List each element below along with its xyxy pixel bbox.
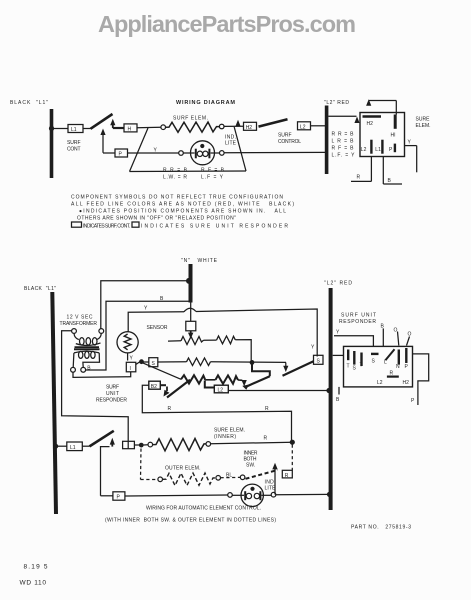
svg-text:SW.: SW. bbox=[246, 463, 255, 469]
svg-text:WD 110: WD 110 bbox=[20, 580, 47, 587]
terminal bbox=[206, 442, 211, 447]
svg-text:"N" WHITE: "N" WHITE bbox=[181, 258, 218, 264]
svg-text:R F = B: R F = B bbox=[332, 146, 355, 152]
svg-text:RESPONDER: RESPONDER bbox=[339, 319, 376, 325]
svg-text:●INDICATES POSITION COMPONENTS: ●INDICATES POSITION COMPONENTS ARE SHOWN… bbox=[79, 209, 286, 215]
svg-text:B: B bbox=[388, 178, 392, 184]
arrow actuator ind lite stem bbox=[274, 469, 276, 495]
svg-text:H2: H2 bbox=[403, 380, 410, 386]
switch blade main bottom bbox=[90, 431, 114, 447]
sensor bbox=[117, 332, 138, 353]
wire resistor to junction bbox=[211, 361, 287, 364]
svg-text:H: H bbox=[128, 127, 132, 133]
wire lamp to L2 bus bbox=[276, 493, 329, 495]
node N junction bbox=[186, 278, 192, 284]
wire R stub below responder bbox=[370, 157, 372, 182]
wire bus to responder H2 with arrow bbox=[328, 115, 356, 117]
dashed drop junction to R box bbox=[291, 445, 293, 471]
trapezoid left diagonal bbox=[130, 128, 149, 172]
switch blade surf control bbox=[259, 119, 288, 126]
svg-text:T: T bbox=[347, 364, 350, 370]
terminal bbox=[271, 492, 276, 497]
svg-text:SURF UNIT: SURF UNIT bbox=[341, 313, 376, 319]
wire row2.5 to zigzag2 bbox=[205, 379, 215, 381]
svg-text:O: O bbox=[408, 332, 412, 338]
svg-text:N: N bbox=[396, 364, 400, 370]
svg-text:Y: Y bbox=[336, 330, 340, 336]
dashed drop to outer row bbox=[140, 449, 143, 480]
svg-text:R: R bbox=[285, 473, 289, 479]
svg-text:R: R bbox=[357, 175, 361, 181]
node row3 bus junction bbox=[326, 388, 331, 393]
svg-text:CONTROL: CONTROL bbox=[278, 139, 301, 145]
terminal P bar bbox=[394, 144, 396, 153]
svg-text:L2: L2 bbox=[361, 147, 367, 153]
wire bus to responder T bbox=[333, 354, 344, 356]
wire bus to L1 box bbox=[52, 128, 69, 130]
svg-text:P: P bbox=[389, 147, 393, 153]
bus L2 bottom bbox=[329, 288, 333, 510]
node inner elem junction bbox=[139, 443, 144, 448]
arrow actuator from P wire bbox=[102, 134, 104, 153]
svg-text:L.F. = Y: L.F. = Y bbox=[332, 153, 356, 159]
terminal bbox=[148, 442, 153, 447]
box L1 bottom bbox=[67, 442, 83, 451]
wire Y into responder top bbox=[334, 336, 373, 346]
resistor surf elem top bbox=[166, 122, 220, 132]
svg-text:Y: Y bbox=[408, 140, 412, 146]
terminal L1 bar bbox=[381, 140, 383, 154]
svg-text:TRANSFORMER: TRANSFORMER bbox=[60, 321, 98, 327]
svg-text:LITE: LITE bbox=[265, 486, 277, 492]
dashed outer row lead bbox=[141, 479, 158, 481]
box B2 bbox=[149, 381, 161, 389]
terminal L2 bar bbox=[370, 140, 372, 154]
wire P box to lamp bbox=[128, 152, 179, 154]
arrow B2 bbox=[160, 384, 166, 386]
branch to L2 box bbox=[205, 381, 215, 388]
svg-text:L1: L1 bbox=[375, 147, 381, 153]
svg-text:SENSOR: SENSOR bbox=[147, 325, 168, 331]
box S left bbox=[149, 358, 158, 367]
node lamp bus junction bbox=[327, 492, 332, 497]
resistor row1 b bbox=[217, 336, 236, 344]
svg-text:H2: H2 bbox=[246, 125, 253, 131]
svg-text:Y: Y bbox=[144, 306, 148, 312]
svg-text:8.19 5: 8.19 5 bbox=[24, 564, 48, 571]
wire inner elem to junction right bbox=[211, 442, 293, 444]
node row1-row2 junction bbox=[250, 360, 255, 365]
svg-text:RESPONDER: RESPONDER bbox=[96, 398, 127, 404]
svg-text:12 V SEC: 12 V SEC bbox=[67, 315, 93, 321]
node inner right junction bbox=[290, 440, 295, 445]
wire row1 mid bbox=[204, 339, 217, 341]
svg-text:(INNER): (INNER) bbox=[214, 434, 236, 440]
terminal bbox=[158, 477, 163, 482]
svg-text:SURE: SURE bbox=[416, 117, 431, 123]
svg-text:O: O bbox=[394, 328, 398, 334]
transformer T1 bbox=[72, 329, 77, 334]
svg-text:PART NO. 275819-3: PART NO. 275819-3 bbox=[351, 525, 411, 531]
box L2 mid bbox=[214, 385, 228, 393]
svg-text:R: R bbox=[168, 406, 172, 412]
terminal bbox=[220, 151, 225, 156]
wire L2 box to bus bbox=[311, 125, 326, 127]
svg-text:UNIT: UNIT bbox=[106, 391, 119, 397]
svg-text:R: R bbox=[265, 406, 269, 412]
box L2 bbox=[298, 122, 311, 130]
wire B from N down to transformer tap bbox=[86, 301, 190, 370]
wire B into responder top bbox=[382, 328, 384, 346]
node L1 junction top bbox=[49, 126, 54, 131]
svg-text:WIRING DIAGRAM: WIRING DIAGRAM bbox=[176, 100, 235, 106]
terminal HI bar bbox=[394, 115, 397, 129]
svg-text:L.F = Y: L.F = Y bbox=[201, 175, 224, 181]
diagonal from node to row2.5 bbox=[143, 363, 182, 380]
wire H to resistor bbox=[137, 126, 161, 128]
svg-text:S: S bbox=[372, 359, 376, 365]
staircase from junction to blade2 bbox=[252, 362, 270, 376]
wire S to resistor row2 bbox=[158, 361, 187, 363]
svg-text:INDICATES SURE UNIT RESPONDER: INDICATES SURE UNIT RESPONDER bbox=[141, 223, 288, 229]
svg-text:INDICATES SURF. CONT.: INDICATES SURF. CONT. bbox=[83, 223, 130, 229]
svg-text:L R = B: L R = B bbox=[332, 139, 355, 145]
bus L1 bottom bbox=[52, 292, 56, 514]
terminal P bar bbox=[405, 348, 407, 363]
svg-text:L.W. = R: L.W. = R bbox=[163, 175, 187, 181]
svg-text:P: P bbox=[411, 398, 415, 404]
wire transformer primary-left long run to H box bbox=[62, 331, 129, 442]
resistor outer elem dashed bbox=[163, 473, 216, 486]
bus N bbox=[189, 264, 193, 303]
svg-text:R.R.= B: R.R.= B bbox=[163, 168, 188, 174]
wire B below responder bbox=[338, 387, 340, 395]
box P bottom bbox=[113, 492, 125, 500]
svg-text:L2: L2 bbox=[377, 380, 383, 386]
indicator light bottom bbox=[241, 484, 263, 506]
svg-text:R: R bbox=[264, 436, 268, 442]
box R bbox=[282, 470, 292, 478]
resistor row1 a bbox=[181, 337, 204, 345]
arrow fixed contact at H bbox=[110, 119, 115, 126]
wire to blade bbox=[82, 445, 89, 447]
svg-text:ELEM.: ELEM. bbox=[416, 123, 431, 129]
terminal bbox=[179, 151, 184, 156]
bus L1 top bbox=[50, 109, 54, 178]
wire to node bbox=[134, 444, 141, 446]
box H bottom (double) bbox=[123, 441, 135, 448]
wire L1 box to blade bbox=[83, 128, 91, 130]
switch blade surf cont top bbox=[91, 114, 113, 129]
resistor row2 bbox=[187, 358, 211, 366]
svg-text:"L2" RED: "L2" RED bbox=[324, 100, 349, 106]
terminal T1 bar bbox=[347, 350, 349, 361]
switch blade B2 bbox=[167, 380, 190, 398]
box S right bbox=[314, 355, 324, 364]
wire lamp to L2 bus bbox=[224, 151, 325, 153]
box H bbox=[124, 124, 137, 132]
box I sensor bbox=[126, 362, 136, 372]
svg-text:SURF: SURF bbox=[106, 385, 119, 391]
wire secondary left terminal to box I bbox=[73, 372, 131, 378]
svg-text:"L2" RED: "L2" RED bbox=[324, 281, 352, 287]
wire row1 right to junction bbox=[235, 340, 251, 361]
plug direction arrow bbox=[366, 99, 371, 106]
svg-text:L1: L1 bbox=[71, 127, 77, 133]
terminal bbox=[240, 475, 245, 480]
svg-text:CONT: CONT bbox=[67, 147, 81, 153]
wire to H2 bbox=[224, 125, 244, 127]
wire N line down to fuse box bbox=[190, 303, 192, 322]
arrow actuator from P stem bbox=[101, 447, 110, 496]
trapezoid right diagonal bbox=[234, 127, 246, 171]
svg-text:B: B bbox=[336, 397, 340, 403]
wire Y sensor to S box vertical run bbox=[128, 312, 184, 332]
svg-text:SURE ELEM.: SURE ELEM. bbox=[214, 428, 245, 434]
svg-text:L2: L2 bbox=[300, 124, 306, 130]
wire Y from responder bbox=[405, 145, 417, 147]
dashed wire to sw terminal bbox=[221, 476, 241, 478]
wire P right of responder bbox=[413, 354, 429, 405]
svg-text:L2: L2 bbox=[218, 388, 224, 394]
svg-text:(WITH INNER BOTH SW. & OUTER: (WITH INNER BOTH SW. & OUTER ELEMENT IN … bbox=[105, 518, 276, 524]
responder box bottom bbox=[344, 346, 413, 387]
responder box top bbox=[360, 113, 405, 157]
svg-text:P: P bbox=[405, 364, 409, 370]
terminal S2 bar horizontal bbox=[371, 353, 379, 355]
blade L inside responder bbox=[385, 349, 394, 360]
svg-text:L1: L1 bbox=[70, 445, 76, 451]
svg-text:BLACK "L1": BLACK "L1" bbox=[24, 286, 56, 292]
wire row2 right arrow bbox=[283, 366, 288, 372]
svg-text:B2: B2 bbox=[151, 384, 157, 390]
wire hop over N line bbox=[184, 308, 196, 312]
terminal bbox=[219, 124, 224, 129]
svg-text:OUTER ELEM.: OUTER ELEM. bbox=[165, 466, 201, 472]
wire N to transformer primary bbox=[101, 281, 190, 329]
wire P row from P box to lamp bbox=[125, 495, 228, 496]
wire O stub 2 bbox=[407, 337, 410, 346]
wire to arrow bbox=[238, 379, 242, 381]
wire row3 to bus bbox=[228, 390, 328, 392]
svg-text:Y: Y bbox=[311, 345, 315, 351]
wire B2 left lead down to R row bbox=[142, 385, 291, 442]
svg-text:BLACK "L1": BLACK "L1" bbox=[10, 100, 48, 106]
box L1 (surf cont terminal) bbox=[68, 125, 83, 133]
svg-text:H2: H2 bbox=[367, 121, 374, 127]
wire P stem to P box bbox=[103, 152, 115, 154]
svg-text:I: I bbox=[130, 366, 131, 372]
svg-text:T: T bbox=[360, 363, 363, 369]
svg-text:ALL FEED LINE COLORS ARE AS NO: ALL FEED LINE COLORS ARE AS NOTED (RED, … bbox=[71, 202, 294, 208]
node junction bbox=[139, 359, 144, 364]
box P bbox=[115, 149, 128, 157]
svg-text:WIRING FOR AUTOMATIC ELEMENT C: WIRING FOR AUTOMATIC ELEMENT CONTROL. bbox=[146, 506, 261, 512]
wire bus to L1 box bottom bbox=[56, 445, 67, 447]
resistor inner elem bbox=[153, 439, 206, 451]
svg-text:R.F = B: R.F = B bbox=[201, 168, 225, 174]
svg-text:OTHERS ARE SHOWN IN "OFF" OR ": OTHERS ARE SHOWN IN "OFF" OR "RELAXED PO… bbox=[77, 216, 236, 222]
indicator light top bbox=[191, 141, 215, 165]
terminal bbox=[161, 125, 166, 130]
terminal N bar bbox=[398, 350, 400, 365]
svg-text:HI: HI bbox=[391, 133, 396, 139]
svg-text:AppliancePartsPros.com: AppliancePartsPros.com bbox=[98, 11, 356, 37]
svg-text:COMPONENT SYMBOLS DO NOT REFLE: COMPONENT SYMBOLS DO NOT REFLECT TRUE CO… bbox=[71, 195, 283, 201]
svg-text:LITE: LITE bbox=[225, 141, 237, 147]
terminal S1 bar bbox=[353, 351, 355, 365]
svg-text:SURF: SURF bbox=[278, 133, 292, 139]
bus L2 top bbox=[325, 106, 329, 175]
terminal bbox=[228, 493, 233, 498]
wire O stub 1 bbox=[398, 332, 399, 346]
switch blade inner both sw dashed bbox=[246, 470, 278, 479]
svg-text:SURF: SURF bbox=[67, 140, 81, 146]
switch blade row2b bbox=[246, 376, 270, 387]
node L1 junction bottom bbox=[53, 444, 58, 449]
terminal H2 bar bbox=[363, 115, 382, 118]
fuse box with arrow (N feed) bbox=[186, 321, 196, 331]
wire B stub below responder bbox=[382, 157, 384, 185]
box H2 bbox=[244, 122, 257, 130]
resistor row2.5 b bold bbox=[216, 375, 239, 383]
svg-text:S: S bbox=[353, 366, 357, 372]
terminal T2 bar bbox=[360, 353, 362, 367]
svg-text:R R = B: R R = B bbox=[332, 132, 355, 138]
wire node to terminal bbox=[144, 444, 148, 446]
trapezoid bottom wire bbox=[130, 170, 247, 173]
svg-text:SURF ELEM.: SURF ELEM. bbox=[173, 116, 208, 122]
arrow fixed contact at H2 bbox=[235, 120, 240, 127]
switch blade row2 bbox=[283, 361, 314, 376]
svg-text:L: L bbox=[384, 360, 387, 366]
svg-text:Y: Y bbox=[130, 356, 134, 362]
terminal bbox=[216, 476, 221, 481]
row1 wire left stub bbox=[168, 340, 181, 342]
wire box I to S box bbox=[136, 362, 149, 365]
resistor row2.5 bold bbox=[181, 375, 205, 383]
